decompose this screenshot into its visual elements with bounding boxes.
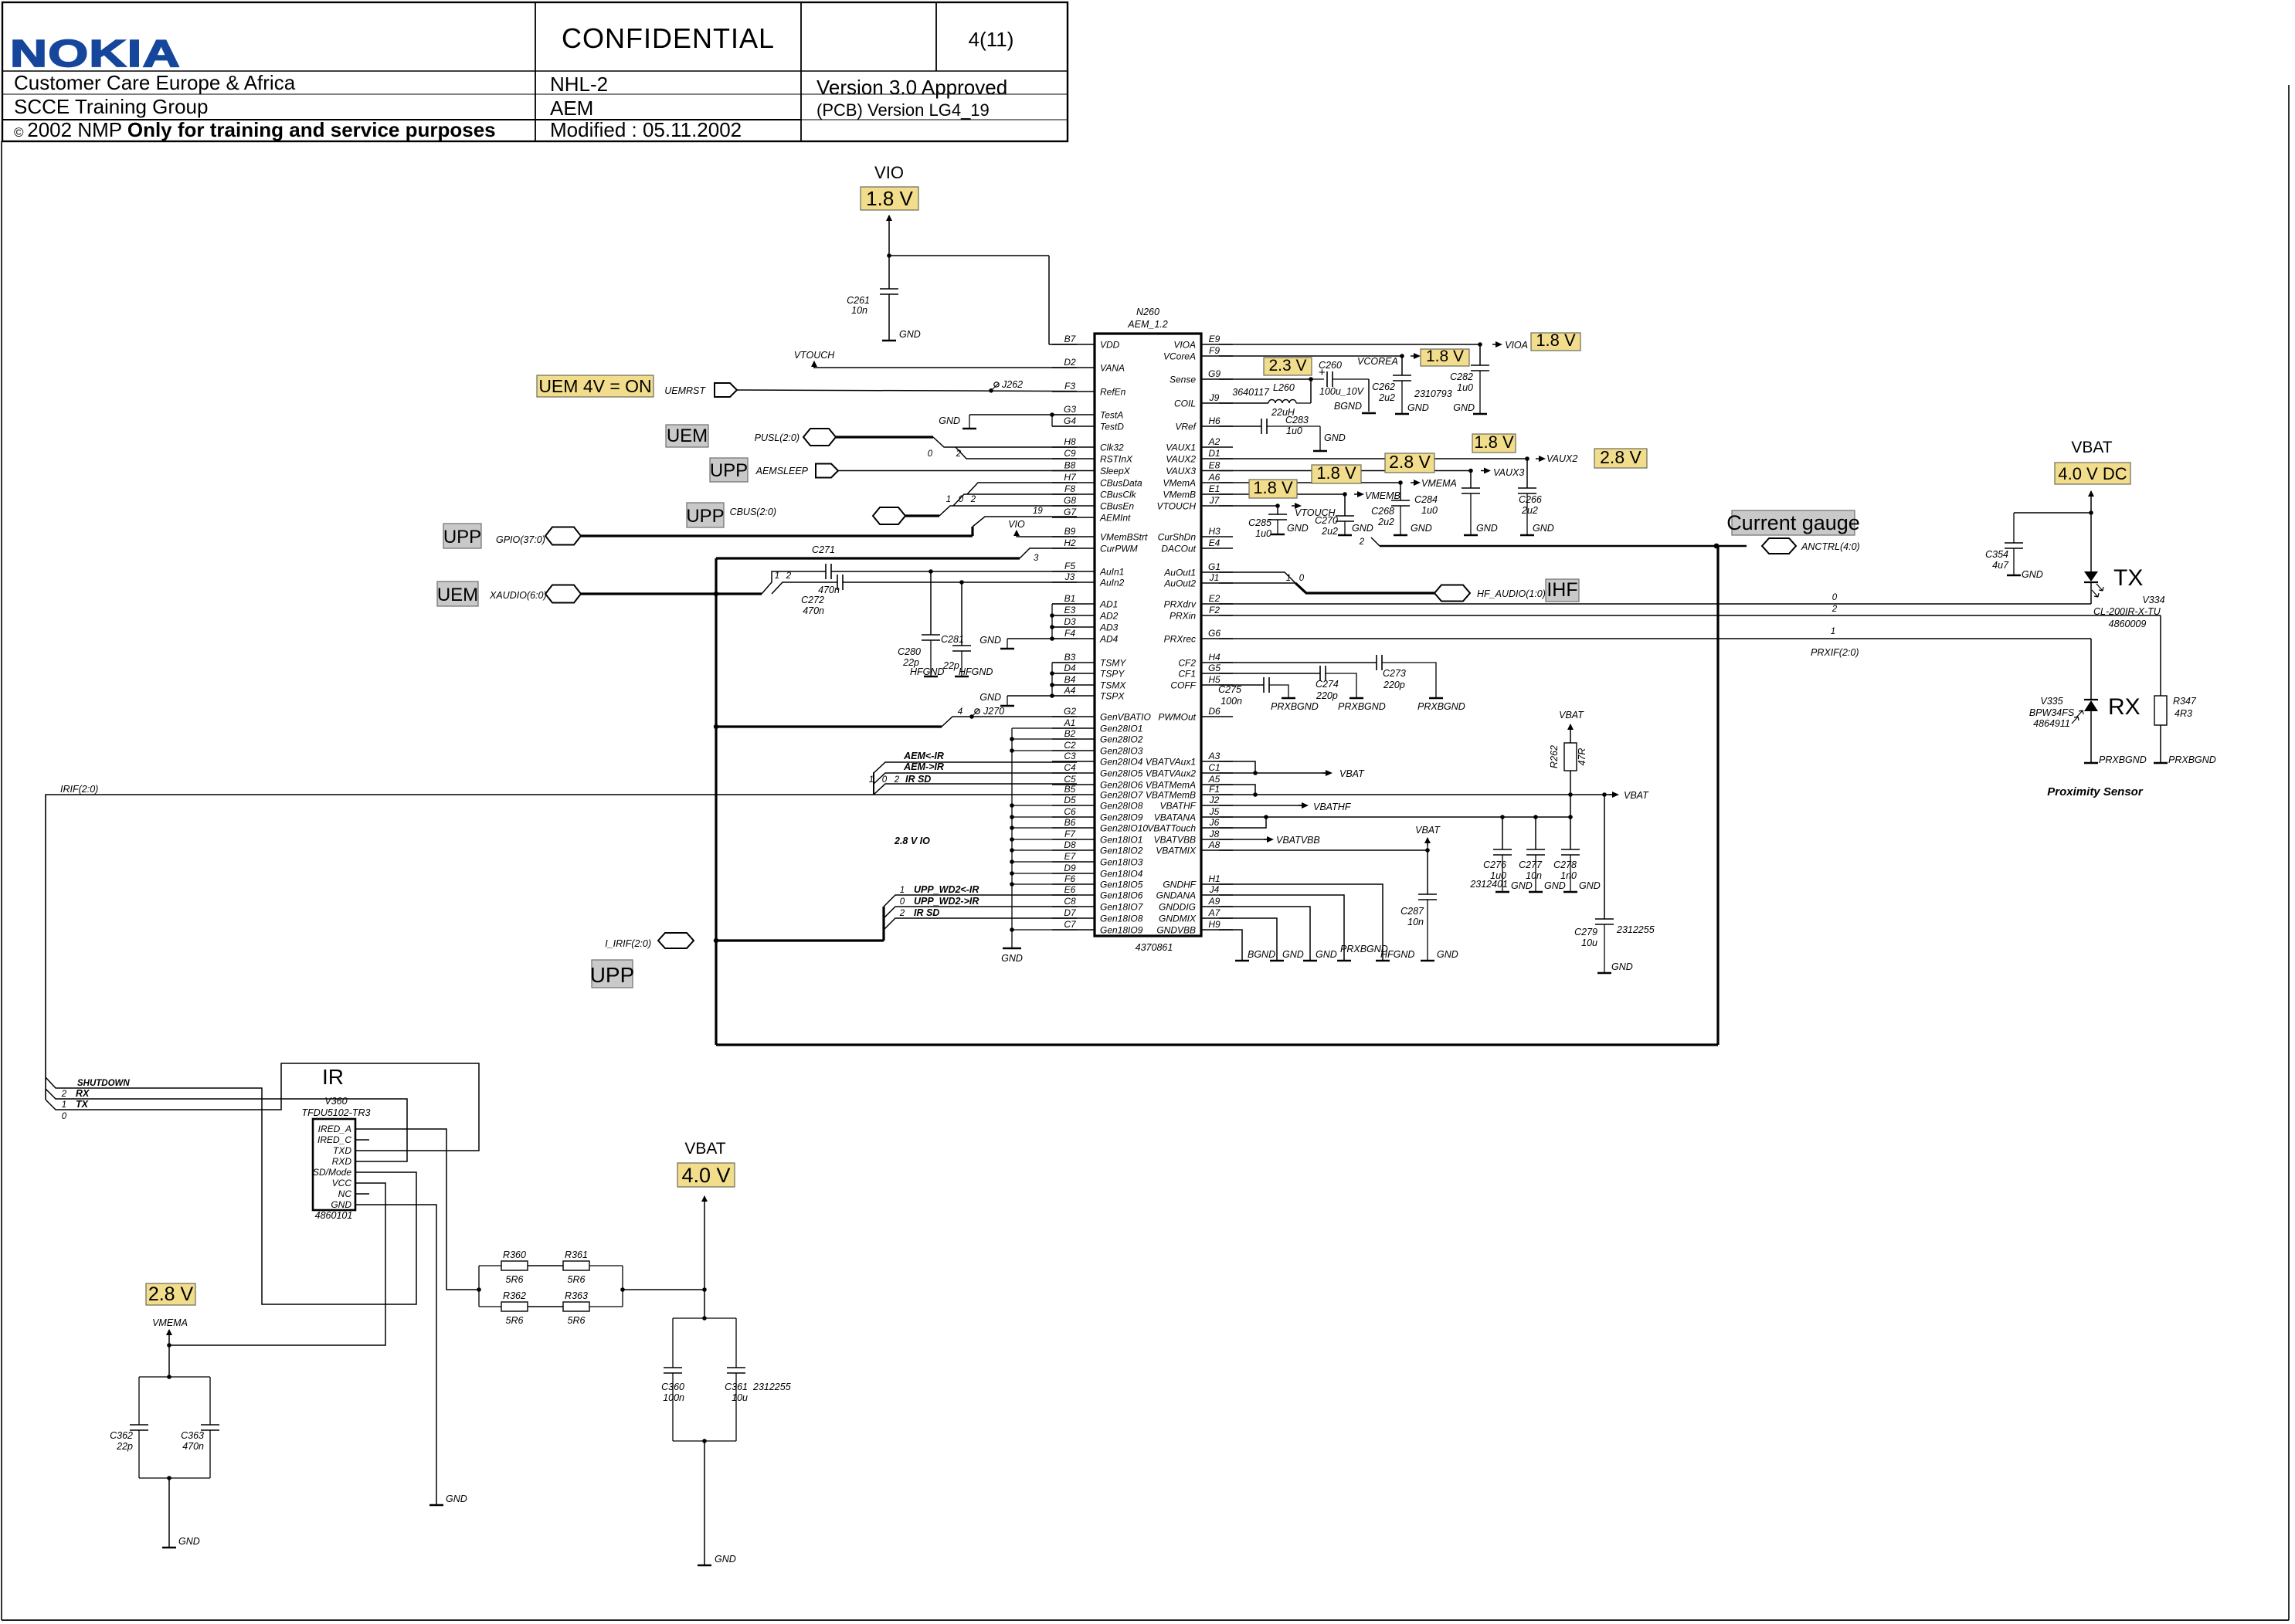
node 2.3V xyxy=(1264,358,1312,375)
svg-text:C1: C1 xyxy=(1208,762,1220,773)
svg-text:VBATHF: VBATHF xyxy=(1160,801,1197,812)
wire Sense to COIL node xyxy=(1310,379,1312,403)
pin J1 AuOut2 xyxy=(1201,582,1233,584)
svg-text:D7: D7 xyxy=(1064,907,1077,918)
wire to C281 xyxy=(961,582,962,646)
pin D6 PWMOut xyxy=(1201,716,1233,717)
pin E4 DACOut xyxy=(1201,548,1233,549)
node UPP label (I_IRIF) xyxy=(592,960,633,988)
wire AuOut1 xyxy=(1219,572,1295,583)
pin C4 Gen28IO5 xyxy=(1052,772,1095,774)
wire network to VBAT node xyxy=(623,1289,704,1290)
pin C7 Gen18IO9 xyxy=(1052,929,1095,931)
svg-text:4: 4 xyxy=(958,707,962,717)
svg-text:1: 1 xyxy=(1286,574,1291,583)
svg-text:VAUX2: VAUX2 xyxy=(1166,454,1196,465)
pin F2 PRXin xyxy=(1201,615,1233,616)
svg-text:R363: R363 xyxy=(565,1290,588,1301)
svg-text:1n0: 1n0 xyxy=(1560,870,1577,881)
svg-text:0: 0 xyxy=(959,495,964,504)
ground PRXBGND C275 xyxy=(1282,697,1295,700)
svg-text:4864911: 4864911 xyxy=(2033,718,2070,729)
svg-text:GNDVBB: GNDVBB xyxy=(1156,925,1196,936)
svg-text:J5: J5 xyxy=(1209,806,1220,817)
capacitor C271 xyxy=(825,564,827,579)
svg-text:R362: R362 xyxy=(503,1290,526,1301)
svg-text:IRED_C: IRED_C xyxy=(317,1134,351,1145)
svg-text:D3: D3 xyxy=(1064,616,1076,627)
wire to C354 xyxy=(2014,512,2091,514)
wire C362/C363 frame xyxy=(139,1376,210,1378)
wire VCC to VMEMA xyxy=(169,1183,385,1345)
pin E6 Gen18IO6 xyxy=(1052,894,1095,896)
svg-text:UPP: UPP xyxy=(590,963,635,987)
svg-text:1: 1 xyxy=(900,886,905,895)
svg-text:F6: F6 xyxy=(1064,873,1075,884)
pin H6 VRef xyxy=(1201,425,1233,427)
svg-text:D6: D6 xyxy=(1208,706,1220,717)
svg-text:1u0: 1u0 xyxy=(1457,382,1473,393)
ground C268 xyxy=(1394,534,1407,537)
svg-text:VIOA: VIOA xyxy=(1505,340,1528,351)
svg-text:D2: D2 xyxy=(1064,357,1076,368)
svg-text:GND: GND xyxy=(1352,523,1373,534)
pin C6 Gen28IO9 xyxy=(1052,816,1095,818)
svg-text:AuIn2: AuIn2 xyxy=(1099,578,1125,588)
svg-text:TX: TX xyxy=(76,1099,89,1110)
svg-text:VMEMA: VMEMA xyxy=(1421,478,1457,489)
wire to C278 xyxy=(1570,817,1571,849)
svg-text:C363: C363 xyxy=(181,1430,204,1441)
ground C362/C363 xyxy=(162,1547,176,1549)
wire C362 to GND xyxy=(168,1478,170,1547)
svg-text:A4: A4 xyxy=(1064,685,1076,696)
op-amp U1 : IC N260 AEM_1.2 main block xyxy=(1095,334,1201,936)
svg-text:IR: IR xyxy=(322,1065,344,1089)
svg-text:GND: GND xyxy=(899,329,921,340)
svg-text:GND: GND xyxy=(1001,953,1023,964)
svg-text:C283: C283 xyxy=(1285,415,1309,425)
svg-text:SCCE Training Group: SCCE Training Group xyxy=(14,95,208,118)
svg-text:J6: J6 xyxy=(1209,817,1220,828)
svg-text:D5: D5 xyxy=(1064,795,1076,805)
svg-text:R262: R262 xyxy=(1549,745,1560,768)
svg-text:VRef: VRef xyxy=(1175,422,1197,432)
ground TestA/TestD xyxy=(962,428,976,430)
wire resistor network frame xyxy=(478,1266,480,1307)
capacitor C363 xyxy=(201,1424,219,1426)
pin J6 VBATTouch xyxy=(1201,827,1233,829)
svg-text:AEMInt: AEMInt xyxy=(1099,513,1131,524)
ground C276 xyxy=(1495,891,1509,893)
pin J4 GNDANA xyxy=(1201,894,1233,896)
pin B3 TSMY xyxy=(1052,662,1095,663)
svg-text:F2: F2 xyxy=(1209,605,1220,615)
wire IRIF bus row / Gen28IO7 xyxy=(715,794,1077,795)
pin G5 CF1 xyxy=(1201,673,1233,674)
svg-text:19: 19 xyxy=(1033,507,1043,516)
svg-text:CBusEn: CBusEn xyxy=(1100,501,1134,512)
pin D2 VANA xyxy=(1052,367,1095,368)
svg-text:J2: J2 xyxy=(1209,795,1220,805)
pin A2 VAUX1 xyxy=(1201,446,1233,448)
svg-text:V335: V335 xyxy=(2040,696,2062,707)
wire bus frame rectangle xyxy=(716,557,1020,559)
wire PRXin down to R347 xyxy=(2160,615,2161,696)
wire PRXdrv bit0 xyxy=(1219,603,2091,605)
pin B2 Gen28IO2 xyxy=(1052,738,1095,740)
pin H3 CurShDn xyxy=(1201,536,1233,537)
pin F9 VCoreA xyxy=(1201,355,1233,357)
svg-text:C2: C2 xyxy=(1064,740,1076,751)
svg-text:CurShDn: CurShDn xyxy=(1158,532,1197,543)
svg-text:A3: A3 xyxy=(1208,751,1220,761)
capacitor C275 xyxy=(1263,677,1265,693)
svg-text:H5: H5 xyxy=(1208,674,1220,685)
svg-text:GND: GND xyxy=(1316,949,1337,960)
svg-text:A8: A8 xyxy=(1208,839,1220,850)
svg-text:2: 2 xyxy=(970,495,976,504)
svg-text:1u0: 1u0 xyxy=(1286,425,1302,436)
svg-text:NC: NC xyxy=(338,1188,352,1199)
svg-text:GND: GND xyxy=(1611,961,1633,972)
pin H8 Clk32 xyxy=(1052,446,1095,448)
pin F1 VBATMemB xyxy=(1201,794,1233,795)
capacitor C282 xyxy=(1471,364,1489,366)
pin E3 AD2 xyxy=(1052,615,1095,616)
svg-text:GND: GND xyxy=(1579,880,1601,891)
svg-text:VBAT: VBAT xyxy=(1415,825,1441,836)
svg-text:0: 0 xyxy=(882,775,888,785)
wire IRED_A to resistor network xyxy=(355,1129,479,1290)
svg-text:Gen28IO5: Gen28IO5 xyxy=(1100,768,1143,779)
pin G3 TestA xyxy=(1052,414,1095,415)
svg-text:B9: B9 xyxy=(1064,526,1076,537)
svg-text:A7: A7 xyxy=(1208,907,1221,918)
svg-text:PRXBGND: PRXBGND xyxy=(2099,754,2147,765)
wire VIO rail to VDD xyxy=(889,255,1049,256)
svg-text:H4: H4 xyxy=(1208,652,1220,663)
svg-text:RX: RX xyxy=(2108,694,2141,720)
svg-text:2.8 V: 2.8 V xyxy=(148,1283,194,1305)
ground C285 xyxy=(1271,534,1285,536)
svg-text:G3: G3 xyxy=(1064,404,1076,415)
svg-text:C275: C275 xyxy=(1218,684,1241,695)
wire PUSL bit0 to Clk32 xyxy=(933,437,1077,447)
node VBAT (VBATMIX) xyxy=(1427,838,1428,850)
svg-text:TSMX: TSMX xyxy=(1100,680,1126,691)
svg-text:VDD: VDD xyxy=(1100,340,1120,351)
node UPP label (GPIO) xyxy=(443,524,481,548)
pin J2 VBATHF xyxy=(1201,805,1233,806)
wire to C284 xyxy=(1470,471,1472,489)
svg-text:2: 2 xyxy=(956,449,962,459)
svg-text:F7: F7 xyxy=(1064,829,1076,839)
svg-text:UEM: UEM xyxy=(667,425,708,446)
svg-text:IRED_A: IRED_A xyxy=(318,1124,351,1134)
wire R347 to PRXBGND xyxy=(2160,725,2161,762)
wire to C268 xyxy=(1400,483,1401,500)
svg-text:2: 2 xyxy=(899,909,905,918)
ground C287 xyxy=(1421,960,1434,962)
wire VMEMA vertical xyxy=(168,1338,170,1377)
node UEM 4V = ON label xyxy=(537,375,654,397)
pin G4 TestD xyxy=(1052,425,1095,427)
wire PRXrec bit1 xyxy=(1219,638,2091,639)
wire TestA/TestD bracket xyxy=(1051,415,1053,426)
pin A6 VMemA xyxy=(1201,482,1233,483)
wire to C277 xyxy=(1535,817,1536,849)
ground PRXBGND C274 xyxy=(1350,697,1363,700)
svg-text:RXD: RXD xyxy=(332,1156,352,1167)
pin E1 VMemB xyxy=(1201,493,1233,495)
svg-text:IHF: IHF xyxy=(1546,579,1577,601)
svg-text:PRXBGND: PRXBGND xyxy=(1417,701,1465,712)
pin A9 GNDDIG xyxy=(1201,906,1233,907)
svg-text:D1: D1 xyxy=(1208,448,1220,459)
wire to C285 xyxy=(1277,506,1278,514)
ground GND xyxy=(1303,960,1317,962)
node UEM label (PUSL) xyxy=(666,425,708,447)
svg-text:HFGND: HFGND xyxy=(959,666,993,677)
pin G2 GenVBATIO xyxy=(1052,716,1095,717)
wire PUSL bus xyxy=(836,436,933,438)
wire VBATHF xyxy=(1219,805,1305,806)
pin H5 COFF xyxy=(1201,684,1233,686)
svg-text:PRXBGND: PRXBGND xyxy=(1271,701,1319,712)
svg-text:A1: A1 xyxy=(1064,717,1076,728)
svg-text:PRXrec: PRXrec xyxy=(1164,634,1196,645)
svg-text:470n: 470n xyxy=(182,1441,204,1452)
svg-text:GND: GND xyxy=(979,692,1001,703)
svg-text:UPP_WD2<-IR: UPP_WD2<-IR xyxy=(914,884,979,895)
svg-text:4(11): 4(11) xyxy=(969,28,1014,51)
wire C260 to BGND xyxy=(1368,379,1370,412)
svg-text:2.3 V: 2.3 V xyxy=(1268,357,1306,375)
wire VMemB xyxy=(1219,493,1345,495)
capacitor C261 xyxy=(880,288,898,290)
svg-text:BGND: BGND xyxy=(1248,949,1275,960)
svg-text:2310793: 2310793 xyxy=(1414,388,1452,399)
svg-text:AD2: AD2 xyxy=(1099,611,1119,622)
svg-text:AEM_1.2: AEM_1.2 xyxy=(1127,319,1167,330)
wire TX diode to PRXdrv xyxy=(2090,582,2092,604)
wire VMemA xyxy=(1219,482,1400,483)
svg-text:100n: 100n xyxy=(663,1392,684,1403)
svg-text:CONFIDENTIAL: CONFIDENTIAL xyxy=(562,22,775,54)
wire VBAT vertical xyxy=(704,1206,705,1318)
wire TSPX to GND xyxy=(1007,695,1052,697)
wire GPIO bit19 to AEMInt xyxy=(973,517,1077,527)
svg-text:VBATTouch: VBATTouch xyxy=(1147,823,1196,834)
pin H1 GNDHF xyxy=(1201,883,1233,885)
wire VCoreA xyxy=(1219,355,1402,357)
header table frame xyxy=(2,2,1068,141)
wire VBATVAux1 xyxy=(1219,761,1255,773)
svg-text:2u2: 2u2 xyxy=(1378,392,1395,403)
svg-text:10u: 10u xyxy=(732,1392,748,1403)
svg-text:2: 2 xyxy=(894,775,900,785)
svg-text:D8: D8 xyxy=(1064,839,1076,850)
svg-text:Gen28IO4: Gen28IO4 xyxy=(1100,757,1143,768)
svg-text:G2: G2 xyxy=(1064,706,1076,717)
pin D7 Gen18IO8 xyxy=(1052,917,1095,919)
svg-text:B2: B2 xyxy=(1064,728,1076,739)
pin G6 PRXrec xyxy=(1201,638,1233,639)
svg-text:C277: C277 xyxy=(1519,859,1543,870)
svg-text:VTOUCH: VTOUCH xyxy=(1157,501,1197,512)
svg-text:Gen28IO1: Gen28IO1 xyxy=(1100,724,1142,734)
svg-text:+: + xyxy=(1319,366,1326,379)
node VAUX2 2.8V xyxy=(1594,449,1647,468)
node VCOREA 1.8V xyxy=(1421,349,1469,366)
svg-text:Proximity Sensor: Proximity Sensor xyxy=(2047,785,2144,798)
svg-text:1: 1 xyxy=(946,495,951,504)
svg-text:5R6: 5R6 xyxy=(568,1315,586,1326)
wire BGND pin drop xyxy=(1219,930,1242,960)
svg-text:UPP: UPP xyxy=(710,460,748,481)
wire GND pin drop xyxy=(1219,918,1277,960)
wire AEM<-IR to Gen28IO4 xyxy=(874,762,1077,773)
pin C9 RSTInX xyxy=(1052,458,1095,459)
node VBAT 4.0 V xyxy=(677,1163,735,1187)
svg-text:(PCB) Version LG4_19: (PCB) Version LG4_19 xyxy=(816,100,990,120)
svg-text:I_IRIF(2:0): I_IRIF(2:0) xyxy=(605,938,651,949)
svg-text:E9: E9 xyxy=(1209,334,1220,344)
capacitor C266 xyxy=(1518,487,1536,489)
wire to C282 xyxy=(1479,344,1481,365)
svg-text:VBATMemB: VBATMemB xyxy=(1146,790,1196,801)
svg-text:E6: E6 xyxy=(1064,884,1076,895)
svg-text:C282: C282 xyxy=(1450,371,1473,382)
wire UPP_WD2<-IR to Gen18IO6 xyxy=(884,895,1077,907)
svg-text:C361: C361 xyxy=(725,1382,748,1392)
svg-text:H7: H7 xyxy=(1064,472,1077,483)
wire sheet left border xyxy=(1,141,2,1620)
svg-text:F5: F5 xyxy=(1064,561,1075,571)
svg-text:2: 2 xyxy=(786,571,792,581)
svg-text:E1: E1 xyxy=(1209,483,1220,494)
svg-text:AEMSLEEP: AEMSLEEP xyxy=(755,466,809,476)
wire VBATMIX to C287 xyxy=(1427,850,1428,894)
ground C279 xyxy=(1597,972,1611,975)
svg-text:IR SD: IR SD xyxy=(905,774,931,785)
svg-text:SleepX: SleepX xyxy=(1100,466,1131,476)
svg-text:GND: GND xyxy=(1533,523,1554,534)
ground HFGND C281 xyxy=(955,676,969,678)
svg-text:H6: H6 xyxy=(1208,415,1220,426)
svg-text:HFGND: HFGND xyxy=(910,666,944,677)
svg-text:VAUX2: VAUX2 xyxy=(1546,453,1577,464)
svg-text:5R6: 5R6 xyxy=(506,1315,524,1326)
wire VIO rail down to C261 xyxy=(888,230,890,289)
pin C8 Gen18IO7 xyxy=(1052,906,1095,907)
pin C3 Gen28IO4 xyxy=(1052,761,1095,762)
svg-text:C360: C360 xyxy=(661,1382,684,1392)
wire IR SD to Gen28IO6 xyxy=(874,784,1077,795)
svg-text:VANA: VANA xyxy=(1100,363,1125,374)
wire AuOut2 xyxy=(1219,582,1295,584)
svg-text:G5: G5 xyxy=(1208,663,1220,673)
pin D5 Gen28IO8 xyxy=(1052,805,1095,806)
svg-text:2.8 V IO: 2.8 V IO xyxy=(894,836,930,846)
svg-text:C285: C285 xyxy=(1248,517,1271,528)
svg-text:XAUDIO(6:0): XAUDIO(6:0) xyxy=(489,590,547,601)
svg-text:H8: H8 xyxy=(1064,436,1076,447)
wire V360 GND xyxy=(355,1205,436,1504)
svg-text:R347: R347 xyxy=(2173,696,2197,707)
svg-text:B6: B6 xyxy=(1064,817,1076,828)
svg-text:Gen18IO8: Gen18IO8 xyxy=(1100,914,1143,924)
ground AD pins xyxy=(1000,648,1014,650)
wire I_IRIF bus xyxy=(715,939,884,941)
connector GPIO(37:0) bus port xyxy=(545,527,581,545)
wire VTOUCH to VANA xyxy=(814,367,1077,368)
wire XAUDIO bit2 to AuIn2 xyxy=(772,582,837,594)
svg-text:GND: GND xyxy=(939,415,960,426)
ground PRXBGND C273 xyxy=(1429,697,1443,700)
wire AEMSLEEP to SleepX xyxy=(838,470,1077,472)
svg-text:2.8 V: 2.8 V xyxy=(1600,447,1641,467)
svg-text:RSTInX: RSTInX xyxy=(1100,454,1133,465)
svg-text:A5: A5 xyxy=(1208,774,1220,785)
svg-text:Sense: Sense xyxy=(1170,375,1196,385)
svg-text:1u0: 1u0 xyxy=(1255,528,1271,539)
svg-text:F8: F8 xyxy=(1064,483,1075,494)
wire R362-R363 xyxy=(528,1306,563,1307)
capacitor C354 xyxy=(2005,542,2023,544)
svg-text:J8: J8 xyxy=(1209,829,1220,839)
ground Gen IO pins xyxy=(1003,948,1021,950)
ground C354 xyxy=(2007,575,2021,577)
pin B6 Gen28IO10 xyxy=(1052,827,1095,829)
node J262 test point xyxy=(989,388,993,393)
wire down to VDD pin xyxy=(1048,256,1050,344)
wire RX diode to PRXBGND xyxy=(2090,711,2092,762)
wire VRef xyxy=(1219,425,1261,427)
capacitor C287 xyxy=(1418,893,1437,895)
svg-text:Gen18IO2: Gen18IO2 xyxy=(1100,846,1143,856)
svg-text:VBATVBB: VBATVBB xyxy=(1276,835,1320,846)
svg-text:J4: J4 xyxy=(1209,884,1220,895)
svg-text:4.0 V: 4.0 V xyxy=(681,1164,730,1187)
ground C262 xyxy=(1395,413,1409,415)
svg-text:2: 2 xyxy=(61,1090,67,1099)
capacitor C277 xyxy=(1526,849,1545,850)
svg-text:G7: G7 xyxy=(1064,507,1077,517)
wire R262 to VBATANA rail xyxy=(1570,771,1571,817)
svg-text:GND: GND xyxy=(1476,523,1498,534)
svg-text:AEM->IR: AEM->IR xyxy=(903,761,944,772)
wire CBUS bit0 to CBusClk xyxy=(953,494,1077,506)
pin H4 CF2 xyxy=(1201,662,1233,663)
pin A1 Gen28IO1 xyxy=(1052,727,1095,729)
svg-text:GND: GND xyxy=(331,1199,351,1210)
pin B5 Gen28IO7 xyxy=(1052,794,1095,795)
wire IR SD fan-out xyxy=(873,772,874,795)
svg-text:CBUS(2:0): CBUS(2:0) xyxy=(730,507,776,517)
wire VBATMIX xyxy=(1219,849,1428,851)
pin C5 Gen28IO6 xyxy=(1052,784,1095,785)
node UPP label (AEMSLEEP) xyxy=(710,458,748,482)
svg-text:VAUX1: VAUX1 xyxy=(1166,442,1196,453)
wire C360/C361 frame xyxy=(673,1317,736,1319)
svg-text:VCC: VCC xyxy=(332,1178,352,1188)
pin F3 RefEn xyxy=(1052,391,1095,392)
wire VBAT down to TX diode xyxy=(2090,500,2092,571)
svg-text:TestD: TestD xyxy=(1100,422,1124,432)
node VAUX3 2.8V xyxy=(1385,453,1434,473)
